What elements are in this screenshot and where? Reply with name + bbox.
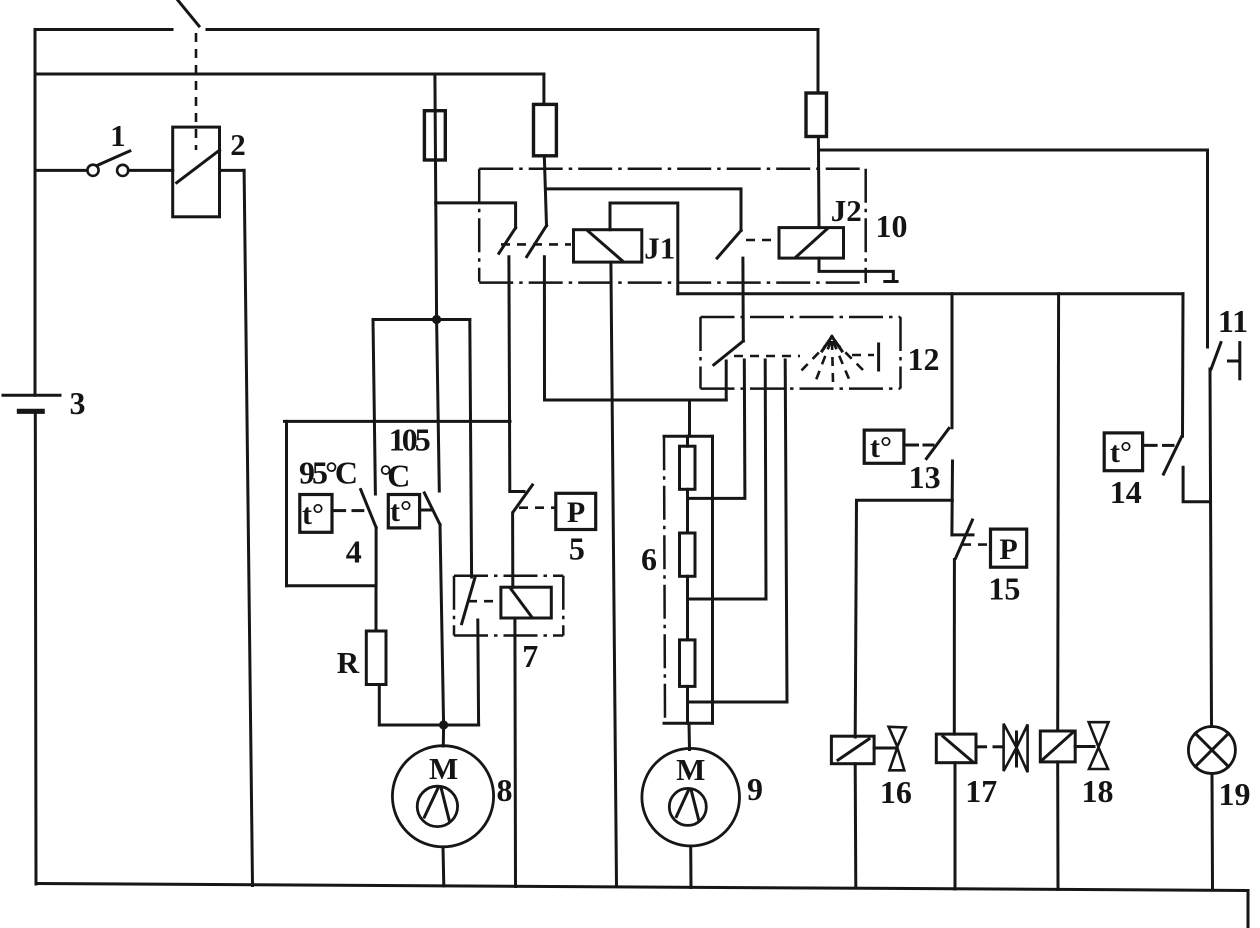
svg-text:15: 15 bbox=[988, 571, 1020, 607]
valve 17 dashes bbox=[978, 745, 986, 748]
valve 17 horn body bbox=[1004, 724, 1028, 772]
switch 1 left contact circle bbox=[87, 165, 98, 176]
svg-text:8: 8 bbox=[497, 772, 513, 808]
contact blade in box 7 bbox=[462, 577, 475, 623]
t° 105C right stub bbox=[420, 509, 433, 512]
svg-text:11: 11 bbox=[1218, 303, 1248, 339]
svg-text:19: 19 bbox=[1219, 776, 1251, 812]
svg-text:12: 12 bbox=[908, 341, 940, 377]
svg-text:9: 9 bbox=[747, 771, 763, 807]
switch 15 linkage dash bbox=[962, 543, 989, 546]
valve 18 stub and dash bbox=[1075, 745, 1082, 748]
wire: J1 coil bottom long drop to bottom bus bbox=[611, 262, 617, 886]
divider block 6 enclosure bbox=[664, 436, 713, 723]
svg-text:J2: J2 bbox=[831, 193, 862, 228]
lamp 19 circle bbox=[1188, 727, 1235, 774]
junction node (dot) at fuse1 line / loop y319 bbox=[432, 315, 441, 324]
wire: relay 2 down to bottom bus bbox=[244, 170, 252, 885]
switch 4a blade (95C) bbox=[361, 490, 376, 528]
relay J1 diagonal bbox=[588, 231, 622, 261]
spray (sprinkler) symbol in box 12 bbox=[799, 337, 863, 383]
contact K1 blade (in box 10) bbox=[499, 228, 516, 254]
wire: switch 13 down through node to switch 15 bbox=[950, 461, 954, 535]
wire: main bus y294 bbox=[678, 292, 1183, 295]
contact K3 blade (in box 10) bbox=[717, 231, 741, 259]
svg-text:°C: °C bbox=[379, 457, 410, 493]
contact K2 blade (in box 10) bbox=[527, 226, 547, 257]
t° 14 stub and dash bbox=[1143, 444, 1157, 447]
svg-text:5: 5 bbox=[569, 531, 585, 567]
wire: top bus right segment bbox=[207, 30, 818, 94]
relay J2 coil box bbox=[779, 228, 844, 259]
valve 18 body (bowtie) bbox=[1089, 722, 1109, 769]
wire: valve 18 coil bottom to bus bbox=[1056, 762, 1059, 890]
wire: box 12 blade lower stub bbox=[725, 361, 728, 400]
wire: motor 9 bottom to bus bbox=[689, 846, 692, 888]
wire: box 12 tap 2 down to divider node b bbox=[688, 360, 767, 599]
wire: 105C blade down to motor junction bbox=[440, 525, 444, 725]
wire: bus drop to switch 13 bbox=[951, 294, 954, 428]
fuse F1 bbox=[424, 111, 445, 160]
switch 4b blade (105C) bbox=[424, 493, 440, 525]
relay 2 coil box bbox=[173, 127, 220, 217]
relay 7 coil box bbox=[501, 587, 551, 618]
motor 9 fan circle bbox=[669, 788, 706, 825]
hook bar (termination) bbox=[885, 280, 897, 283]
valve 17 coil box bbox=[936, 734, 976, 763]
wire: motor 8 bottom to bus bbox=[442, 847, 446, 886]
svg-text:M: M bbox=[429, 751, 458, 786]
wire: bus drop to valve 18 chain bbox=[1056, 294, 1060, 731]
wire: switch 1 to relay 2 bbox=[128, 169, 172, 172]
wire: relay 2 right terminal bbox=[220, 169, 245, 172]
fuse F3 bbox=[806, 93, 827, 137]
battery 3 long plate bbox=[3, 394, 60, 397]
thermal sensor box t° (14) bbox=[1104, 433, 1142, 471]
wire: switch 11 down to lamp 19 bbox=[1210, 369, 1212, 727]
relay 2 dashed actuating link from top switch bbox=[195, 33, 198, 150]
valve 16 coil diagonal bbox=[838, 739, 869, 760]
junction node (dot) above motor 8 bbox=[439, 720, 448, 729]
wire: switch 14 to lamp line bbox=[1183, 467, 1210, 502]
valve 17 coil diagonal bbox=[943, 737, 973, 762]
valve 18 coil box bbox=[1040, 731, 1075, 762]
wire: top bus left segment bbox=[35, 28, 172, 31]
wire: bus2 through fuse F1 down to junction bbox=[435, 74, 437, 320]
mechanical link dashes K1-K2-J1 bbox=[501, 243, 571, 246]
valve 16 stub and dash bbox=[874, 747, 884, 750]
switch 1 blade bbox=[97, 151, 130, 166]
wire: branch y500 to valve 16 chain bbox=[855, 500, 952, 737]
svg-text:t°: t° bbox=[870, 431, 892, 464]
t° 13 stub and dash bbox=[904, 444, 918, 447]
motor 9 outer circle bbox=[642, 748, 740, 846]
svg-text:t°: t° bbox=[1110, 436, 1132, 469]
svg-text:M: M bbox=[676, 752, 705, 787]
wire: bus2 corner down to fuse F2 bbox=[542, 74, 545, 104]
wire: through valve 16 coil to bus bbox=[854, 764, 858, 888]
wire: branch at y150 to switch 11 bbox=[819, 150, 1208, 347]
svg-text:16: 16 bbox=[880, 774, 912, 810]
pressure sensor box P (15) bbox=[991, 529, 1027, 567]
wire: bus right corner down to switch 14 bbox=[1181, 294, 1185, 437]
wire: feed to switch 1 bbox=[35, 169, 87, 172]
wire: rail y400 down to divider 6 bbox=[688, 400, 691, 436]
wire: fuse F3 down to node, then to J2 bbox=[817, 137, 821, 228]
wire: box 12 tap 3 down to divider node c bbox=[688, 360, 788, 702]
switch 14 blade bbox=[1164, 436, 1182, 474]
battery 3 short plate bbox=[17, 409, 45, 414]
switch 13 blade bbox=[926, 428, 949, 458]
spray block box 12 (dash-dot enclosure) bbox=[701, 317, 901, 389]
svg-text:4: 4 bbox=[346, 533, 362, 569]
switch 11 fixed contact stub bbox=[1229, 360, 1239, 363]
relay block box 10 (dash-dot enclosure) bbox=[479, 169, 866, 283]
wire: element 4 bottom edge bbox=[287, 584, 377, 587]
thermal sensor box t° (105C) bbox=[388, 495, 419, 529]
wire: valve 17 coil bottom to bus bbox=[954, 763, 957, 889]
svg-text:10: 10 bbox=[876, 208, 908, 244]
svg-text:J1: J1 bbox=[644, 231, 675, 266]
svg-text:6: 6 bbox=[641, 541, 657, 577]
svg-text:1: 1 bbox=[110, 118, 126, 153]
wire: loop left leg down to 95C blade bbox=[373, 320, 375, 495]
thermal sensor box t° (95C) bbox=[300, 495, 332, 533]
svg-text:13: 13 bbox=[909, 459, 941, 495]
wire: left border lower bbox=[34, 411, 38, 884]
wire: junction down to motor 8 bbox=[442, 725, 445, 746]
relay block box 7 (dash-dot enclosure) bbox=[454, 576, 563, 636]
svg-text:P: P bbox=[999, 533, 1017, 566]
svg-text:R: R bbox=[337, 645, 360, 680]
wire: R bottom lead to junction rail bbox=[379, 685, 478, 726]
mechanical link dashes K3-J2 bbox=[746, 239, 776, 242]
wire: fuse F2 down to contact K2 bbox=[544, 156, 546, 226]
wire: loop y319 horizontal bbox=[373, 318, 470, 321]
wire: divider center leads bbox=[686, 436, 689, 723]
svg-text:105: 105 bbox=[389, 422, 431, 458]
resistor 6-2 body bbox=[680, 533, 696, 576]
wire: divider bottom to motor 9 bbox=[688, 723, 692, 749]
valve 16 coil box bbox=[831, 736, 874, 764]
switch 5 blade bbox=[514, 485, 533, 511]
resistor 6-3 body bbox=[680, 640, 696, 687]
wire: element 4 left edge bbox=[285, 421, 288, 585]
box 12 fixed contact bar bbox=[877, 344, 880, 370]
wire: 95C blade down to element 4 bottom bbox=[375, 527, 378, 585]
pressure switch 5: fixed bar bbox=[510, 490, 524, 493]
svg-text:7: 7 bbox=[522, 638, 538, 674]
switch 15 blade bbox=[956, 520, 973, 558]
wire: node rail y400 (K2 to divider top) bbox=[545, 399, 727, 402]
fuse F2 bbox=[534, 104, 557, 155]
thermal sensor box t° (13) bbox=[864, 430, 904, 464]
pressure sensor box P (5) bbox=[556, 493, 596, 529]
t° 95C right stub and dash bbox=[332, 509, 345, 512]
svg-text:t°: t° bbox=[302, 498, 324, 531]
wire: relay 7 bottom to bottom bus bbox=[513, 618, 517, 887]
box 7 linkage dashes bbox=[468, 600, 499, 603]
relay 2 diagonal bbox=[177, 150, 220, 183]
wire: contact K2 down to node y400 bbox=[543, 257, 546, 400]
motor 9 impeller strokes bbox=[676, 789, 689, 817]
wire: J1 coil top to bus-start riser bbox=[610, 203, 678, 294]
switch 5 linkage dashes bbox=[519, 506, 555, 509]
contact blade in box 12 bbox=[714, 341, 744, 365]
wire: bottom bus bbox=[36, 884, 1248, 928]
svg-text:14: 14 bbox=[1110, 474, 1142, 510]
svg-text:18: 18 bbox=[1082, 773, 1114, 809]
switch (unnumbered) on top bus bbox=[176, 0, 199, 26]
wire: K2 top branch to contact K3 bbox=[547, 189, 741, 231]
motor 8 outer circle bbox=[392, 746, 493, 847]
wire: lamp 19 bottom to bus bbox=[1211, 774, 1215, 891]
wire: contact K1 down to pressure switch 5 bbox=[507, 257, 511, 490]
switch 1 right contact circle bbox=[117, 165, 128, 176]
wire: J2 bottom hook termination bbox=[819, 258, 893, 279]
switch 11 fixed contact bar bbox=[1238, 343, 1241, 379]
svg-text:95°C: 95°C bbox=[299, 455, 358, 491]
wire: box 12 tap 1 down to divider node a bbox=[688, 360, 745, 498]
motor 8 impeller strokes bbox=[424, 787, 438, 817]
relay 7 diagonal bbox=[511, 589, 532, 617]
svg-text:17: 17 bbox=[965, 773, 997, 809]
wire: left border upper bbox=[34, 30, 37, 396]
wire: element 4 top rail bbox=[285, 420, 511, 423]
switch 11 blade bbox=[1211, 343, 1221, 369]
wire: R top lead bbox=[375, 586, 378, 631]
switch 15 fixed bar bbox=[952, 533, 973, 536]
wire: switch 5 down to relay 7 coil bbox=[511, 513, 514, 587]
svg-text:3: 3 bbox=[70, 385, 86, 421]
relay J2 diagonal bbox=[796, 229, 827, 257]
resistor R body bbox=[366, 631, 386, 685]
wire: second bus bbox=[35, 73, 544, 76]
wire: switch 15 down to valve 17 coil bbox=[953, 560, 956, 735]
svg-text:t°: t° bbox=[390, 495, 412, 528]
valve 16 body (bowtie) bbox=[889, 727, 906, 771]
motor 8 fan circle bbox=[417, 786, 457, 826]
relay J1 coil box bbox=[574, 230, 642, 262]
wire: loop right leg down to box 7 blade bbox=[470, 320, 472, 578]
valve 18 coil diagonal bbox=[1042, 732, 1074, 761]
svg-text:P: P bbox=[567, 496, 585, 529]
resistor 6-1 body bbox=[680, 446, 696, 489]
lamp 19 cross strokes bbox=[1195, 733, 1228, 766]
wire: contact K3 down into box 12 bbox=[741, 258, 744, 341]
linkage dashed line in box 12 bbox=[734, 355, 800, 358]
wire: fuse1 line continues down to 105C blade bbox=[437, 320, 440, 492]
svg-text:2: 2 bbox=[230, 127, 246, 162]
wire: fuse F1 branch to contact K1 bbox=[436, 203, 516, 228]
wire: box 7 blade leg down to junction rail bbox=[476, 620, 480, 725]
